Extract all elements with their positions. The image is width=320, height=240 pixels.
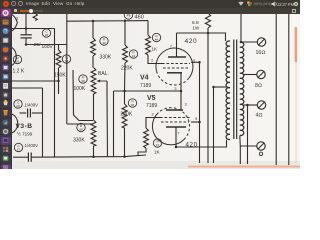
wire [67,123,93,125]
indicator: volume [271,1,278,7]
label R44 [152,33,160,41]
wire [199,62,201,163]
svg-text:7189: 7189 [140,83,151,89]
window maximize button [18,1,23,6]
label C27 [14,143,22,151]
svg-text:1K: 1K [154,150,161,155]
wire [58,81,60,94]
node [123,155,126,158]
top menu bar [0,0,300,8]
wire plate V4 [177,33,226,41]
capacitor C26 [20,112,27,114]
node [240,41,243,44]
resistor R47 1K [144,128,149,148]
resistor R40 330K [91,38,96,56]
wire grid node [12,28,55,30]
indicator: wifi [238,1,244,6]
svg-text:3: 3 [174,87,176,91]
wire center tap [214,86,227,88]
pentode V4 envelope [156,48,193,78]
svg-text:7: 7 [178,132,180,136]
transformer core [233,40,235,140]
wire 8 ohm tap [244,74,257,76]
triode V3-A lower arc (clipped) [12,48,16,66]
wire common tap [240,136,257,147]
label R39 [79,75,87,83]
fullscreen icon [292,9,296,13]
svg-text:V3-B: V3-B [16,123,33,130]
label R23 [13,55,21,63]
svg-text:34: 34 [65,59,69,63]
wire 4 ohm tap [244,104,258,106]
svg-text:BAL.: BAL. [98,71,109,77]
wire [180,91,182,100]
node [25,27,28,30]
node [175,146,178,149]
wire wiper [106,81,108,94]
wire 16 ohm tap [241,41,257,43]
transformer secondary winding [240,42,244,136]
wire [275,13,277,165]
V4 plate [168,56,186,58]
svg-text:45: 45 [131,103,135,107]
wire [92,56,94,68]
window minimize button [11,1,16,6]
viewer toolbar with slider [12,8,300,14]
wire [12,87,43,89]
svg-text:220K: 220K [121,66,133,72]
wire [54,29,56,158]
window close button [3,1,9,7]
svg-text:9: 9 [195,116,198,121]
label R38 [77,123,85,131]
wire [58,68,60,81]
wire [93,94,95,120]
triode V3-A (clipped) [12,15,17,32]
svg-text:40: 40 [102,41,106,45]
wire [239,146,241,164]
svg-text:3: 3 [16,16,19,21]
label R34 [62,55,70,63]
slider knob [29,9,33,13]
wiper arrow [100,80,108,82]
svg-text:2: 2 [152,112,155,117]
svg-text:47: 47 [156,143,160,147]
node [212,86,215,89]
wire [247,105,249,164]
svg-text:220K: 220K [121,112,133,118]
wire [124,91,126,104]
node [124,20,127,23]
terminal 16 ohm [257,38,265,46]
wire [113,91,115,157]
svg-text:.1/400V: .1/400V [24,103,39,108]
svg-text:39: 39 [81,79,85,83]
svg-text:100K: 100K [74,86,86,92]
svg-text:1.2 K: 1.2 K [13,69,25,75]
svg-text:49: 49 [127,14,131,18]
svg-text:26: 26 [16,104,20,108]
terminal 4 ohm [257,101,265,109]
wire [138,148,146,156]
svg-text:150K: 150K [54,73,66,79]
wire bottom bus [31,155,146,157]
indicator: messaging [247,1,253,7]
node [207,32,210,35]
label C26 [14,100,22,108]
V5 grid [160,117,190,119]
node [246,104,249,107]
wire screen bus [114,90,182,92]
resistor R39 100K BAL pot [91,68,96,95]
svg-text:330K: 330K [100,55,112,61]
wire [148,55,162,64]
wire [124,21,126,45]
unity launcher [0,8,12,169]
wire [66,13,68,124]
V4 grid [162,63,190,65]
slider track rest [30,10,43,12]
resistor 6.8 ohm 1W [205,13,210,28]
svg-text:7189: 7189 [146,103,157,109]
wire [124,63,127,91]
app menus [26,1,39,6]
wire [207,33,209,163]
svg-text:25: 25 [45,33,49,37]
terminal 8 ohm [257,70,265,78]
svg-text:1K: 1K [152,47,159,52]
wire [73,70,93,121]
V4 grid2 [163,67,188,69]
svg-text:460: 460 [135,15,144,21]
terminal common [257,142,265,150]
wire [124,128,126,157]
node [25,43,28,46]
label R47 [153,139,161,147]
svg-text:16Ω: 16Ω [256,50,266,56]
svg-text:1W: 1W [193,26,200,31]
resistor R38 330K [91,120,96,146]
pink mark vertical faint [295,62,297,163]
pink mark bottom [188,166,300,168]
slider track filled [20,10,31,12]
resistor R45 220K [122,104,127,128]
resistor (clipped at top) [33,13,37,21]
triode V3-B (clipped) [12,114,18,133]
svg-text:½ 7199: ½ 7199 [17,131,33,137]
svg-text:.1/400V: .1/400V [24,143,39,148]
wire [213,87,215,163]
resistor R34 150K [56,50,61,68]
svg-text:V5: V5 [147,95,156,102]
wire [12,80,59,82]
wire [26,44,67,46]
terminal mark [259,152,262,155]
svg-text:4Ω: 4Ω [256,113,263,119]
node [198,121,201,124]
node [198,61,201,64]
indicator: session gear [293,1,299,7]
wire [207,28,209,33]
label 49 [124,11,132,19]
wire [93,146,95,157]
V4 cathode [167,72,182,74]
wire [147,21,149,35]
V5 grid2 [161,121,189,123]
svg-text:27: 27 [17,148,21,152]
wire [106,94,109,157]
transformer primary winding [226,41,230,140]
svg-text:44: 44 [155,38,159,42]
node [92,156,95,159]
wire g2 V4 [191,61,200,63]
schematic paper [12,14,300,169]
svg-text:43: 43 [132,54,136,58]
wire [58,45,60,51]
pentode V5 envelope [152,113,184,145]
wire [92,21,94,38]
pink mark vertical [295,27,298,62]
svg-text:23: 23 [16,60,20,64]
wire [240,13,242,42]
indicator: battery text [254,2,271,6]
label R40 [100,37,108,45]
resistor R43 220K [123,45,128,63]
capacitor C27 [27,153,29,162]
label R45 [128,99,136,107]
node [57,80,60,83]
label C25 [42,29,50,37]
indicator: clock [277,2,294,7]
svg-text:38: 38 [79,128,83,132]
wire top rail [67,20,148,23]
node [180,90,183,93]
svg-text:3: 3 [185,102,188,107]
svg-text:V4: V4 [140,75,149,82]
resistor R44 1K [146,35,151,55]
V5 plate [166,126,186,128]
svg-text:420: 420 [185,38,198,45]
V5 cathode [166,109,183,111]
label R43 [129,50,137,58]
node [92,20,95,23]
wire g2 V5 [191,121,200,123]
node [123,90,126,93]
slider icon [14,9,17,12]
wire cathode return [176,140,227,147]
wire [146,118,160,129]
wire [288,13,290,165]
svg-text:330K: 330K [73,138,85,144]
svg-text:2: 2 [151,58,154,63]
wire [25,13,27,35]
svg-text:8Ω: 8Ω [255,83,262,89]
capacitor C25 .25/100V [21,34,32,36]
